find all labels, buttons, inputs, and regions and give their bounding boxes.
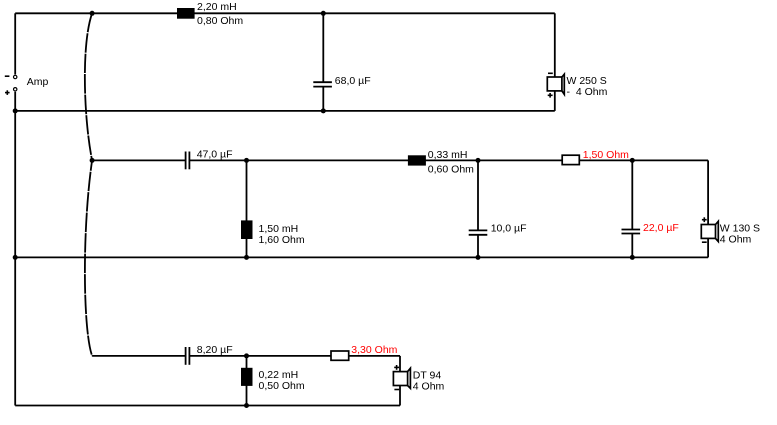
svg-text:68,0 µF: 68,0 µF (335, 75, 371, 87)
svg-text:3,30 Ohm: 3,30 Ohm (351, 344, 397, 356)
svg-text:2,20 mH: 2,20 mH (197, 1, 237, 13)
svg-text:1,50 Ohm: 1,50 Ohm (583, 149, 629, 161)
svg-text:0,60 Ohm: 0,60 Ohm (428, 163, 474, 175)
svg-text:- 4 Ohm: - 4 Ohm (567, 86, 608, 98)
svg-text:8,20 µF: 8,20 µF (197, 344, 233, 356)
svg-text:0,80 Ohm: 0,80 Ohm (197, 15, 243, 27)
svg-text:0,33 mH: 0,33 mH (428, 149, 468, 161)
svg-text:4 Ohm: 4 Ohm (720, 234, 752, 246)
svg-text:Amp: Amp (27, 76, 49, 88)
svg-text:47,0 µF: 47,0 µF (197, 148, 233, 160)
svg-text:4 Ohm: 4 Ohm (413, 381, 445, 393)
svg-text:10,0 µF: 10,0 µF (491, 223, 527, 235)
svg-text:1,60 Ohm: 1,60 Ohm (259, 234, 305, 246)
svg-text:0,50 Ohm: 0,50 Ohm (259, 380, 305, 392)
svg-text:22,0 µF: 22,0 µF (643, 222, 679, 234)
